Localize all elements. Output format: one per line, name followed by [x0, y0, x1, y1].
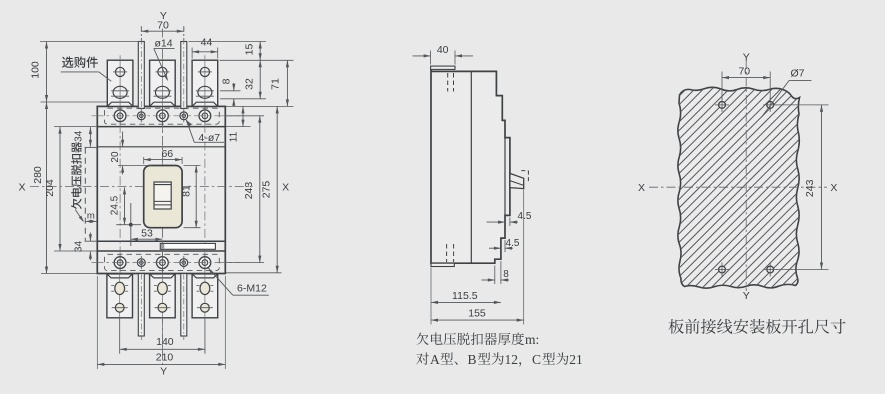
bottom busbar terminal 2 — [150, 274, 176, 354]
svg-text:X: X — [18, 181, 25, 193]
top busbar terminal 3 — [192, 55, 218, 106]
svg-text:71: 71 — [270, 78, 282, 90]
mounting plate X centerline — [649, 186, 827, 188]
side view bottom terminal bar — [431, 263, 454, 266]
caption: undervoltage release thickness m — [416, 333, 524, 346]
dimension 70 top — [140, 27, 142, 41]
side view hidden hole top — [447, 73, 449, 92]
top strip pole terminal screw 2 — [157, 107, 169, 124]
mounting hole 2 — [763, 98, 777, 112]
top strip barrier screw 1 — [137, 109, 145, 122]
top busbar terminal 1 — [107, 55, 133, 106]
upper face line — [97, 146, 225, 148]
mounting hole 4 — [763, 263, 777, 277]
lower face line — [97, 240, 225, 242]
svg-text:Y: Y — [160, 366, 167, 378]
svg-text:53: 53 — [141, 227, 153, 239]
svg-text:20: 20 — [110, 151, 121, 163]
svg-text:70: 70 — [157, 19, 169, 31]
pole centerlines — [119, 106, 121, 273]
svg-text:275: 275 — [261, 181, 273, 199]
svg-text:155: 155 — [468, 308, 486, 320]
svg-text:40: 40 — [437, 44, 449, 56]
svg-text:X: X — [282, 181, 289, 193]
side view handle wedge — [510, 173, 524, 188]
handle escutcheon — [144, 166, 182, 228]
top busbar terminal 2 — [150, 55, 176, 106]
svg-text:81: 81 — [181, 185, 193, 197]
side view bezel inner line — [504, 138, 506, 216]
dimension 100 — [40, 41, 141, 43]
mounting hole 3 — [715, 263, 729, 277]
front view: X centerline — [30, 186, 144, 188]
dimension 81 — [184, 165, 201, 167]
handle toggle — [154, 182, 171, 209]
bottom strip barrier screw 1 — [137, 256, 145, 269]
dimension 140 — [119, 318, 121, 354]
top terminal strip line — [97, 126, 225, 128]
dimension 4.5 lower side — [504, 240, 506, 252]
top strip dashed box — [105, 108, 220, 124]
svg-text:X: X — [638, 182, 645, 194]
side view hidden hole bottom — [446, 244, 448, 262]
svg-text:66: 66 — [161, 148, 173, 160]
dimension 66 — [143, 157, 145, 164]
bottom strip pole terminal screw 1 — [114, 254, 126, 271]
svg-text:B: B — [468, 352, 477, 367]
svg-text:34: 34 — [73, 130, 84, 142]
svg-text:24.5: 24.5 — [110, 195, 121, 215]
dimension 71 — [286, 60, 288, 106]
side view top terminal bar — [431, 66, 455, 69]
svg-text:32: 32 — [244, 78, 256, 90]
label optional part 选购件 — [62, 56, 98, 67]
dimension 15 — [189, 41, 267, 43]
front view: Y centerline — [161, 29, 163, 38]
svg-text:210: 210 — [156, 351, 174, 363]
top strip terminal centerline — [92, 115, 241, 117]
svg-text:11: 11 — [229, 131, 240, 142]
mounting plate with hatching — [678, 87, 800, 288]
bottom terminal strip line — [97, 250, 225, 252]
undervoltage release attachment (dashed) — [84, 148, 86, 241]
caption: panel drilling dimensions — [669, 319, 846, 334]
svg-text:204: 204 — [44, 179, 56, 197]
svg-text:243: 243 — [243, 182, 255, 200]
dimension 243 plate — [776, 104, 829, 106]
svg-text:115.5: 115.5 — [452, 290, 478, 302]
top strip pole terminal screw 3 — [199, 107, 211, 124]
bottom busbar terminal 1 — [107, 274, 133, 354]
side view body outline — [431, 69, 510, 263]
svg-text:21: 21 — [569, 352, 583, 367]
bottom strip terminal centerline — [92, 262, 241, 264]
svg-text:243: 243 — [804, 179, 816, 197]
top phase barrier 2 — [181, 26, 187, 109]
svg-text:Ø7: Ø7 — [790, 68, 804, 80]
svg-text:6-M12: 6-M12 — [237, 283, 267, 295]
svg-text:Y: Y — [743, 52, 750, 64]
svg-text:34: 34 — [73, 241, 84, 253]
mounting plate Y centerline — [745, 60, 747, 291]
dimension 8 side — [494, 266, 496, 285]
svg-text:Y: Y — [743, 290, 750, 302]
svg-text:4.5: 4.5 — [518, 211, 532, 222]
caption: for type A B is 12, type C is 21 — [416, 352, 429, 364]
svg-text:8: 8 — [220, 78, 232, 84]
dimension 32 — [259, 60, 261, 99]
bottom strip pole terminal screw 3 — [199, 254, 211, 271]
side view handle alt position dashed — [521, 170, 528, 172]
bottom strip dashed box — [105, 254, 220, 270]
dimension 11 — [226, 105, 294, 107]
svg-text:ø14: ø14 — [154, 38, 172, 50]
bottom strip pole terminal screw 2 — [157, 254, 169, 271]
dimension 210 — [96, 276, 98, 369]
svg-text:m:: m: — [525, 332, 539, 347]
dimension 115.5 — [430, 268, 432, 325]
side view cover split line — [470, 71, 472, 263]
dimension 4.5 upper side — [509, 218, 511, 227]
dimension 20 — [122, 132, 124, 147]
bottom strip barrier screw 2 — [180, 256, 188, 269]
mounting hole 1 — [715, 98, 729, 112]
svg-text:70: 70 — [738, 66, 750, 78]
bottom phase barrier 2 — [181, 274, 187, 341]
label undervoltage release 欠电压脱扣器 vertical — [71, 142, 82, 209]
svg-text:15: 15 — [244, 44, 256, 56]
dimension 8 right — [220, 90, 241, 92]
dimension 280 — [41, 273, 97, 275]
svg-text:100: 100 — [30, 61, 42, 79]
svg-text:44: 44 — [201, 36, 213, 48]
svg-text:280: 280 — [32, 166, 44, 184]
dimension 204 — [54, 126, 97, 128]
dimension 24.5 — [116, 224, 141, 226]
svg-text:C: C — [532, 352, 541, 367]
dimension 243 front — [226, 115, 264, 117]
dimension 70 plate — [721, 72, 723, 100]
top strip barrier screw 2 — [180, 109, 188, 122]
top phase barrier 1 — [138, 26, 144, 109]
svg-text:A: A — [430, 352, 440, 367]
dimension 155 — [523, 190, 525, 325]
dimension 34 top-left — [85, 146, 98, 148]
dimension 275 — [226, 272, 282, 274]
bottom phase barrier 1 — [138, 274, 144, 341]
dimension 34 bottom-left — [85, 240, 98, 242]
top strip pole terminal screw 1 — [114, 107, 126, 124]
svg-text:140: 140 — [156, 336, 174, 348]
nameplate bar — [160, 243, 215, 249]
dimension 53 — [131, 238, 163, 240]
svg-text:4.5: 4.5 — [506, 238, 520, 249]
svg-text:X: X — [830, 182, 837, 194]
svg-text:8: 8 — [503, 269, 509, 280]
svg-text:m: m — [87, 210, 95, 221]
breaker body outline — [97, 106, 225, 273]
dimension 40 side — [430, 51, 432, 65]
bottom busbar terminal 3 — [192, 274, 218, 354]
svg-text:12: 12 — [505, 352, 519, 367]
dimension 44 — [191, 48, 193, 59]
